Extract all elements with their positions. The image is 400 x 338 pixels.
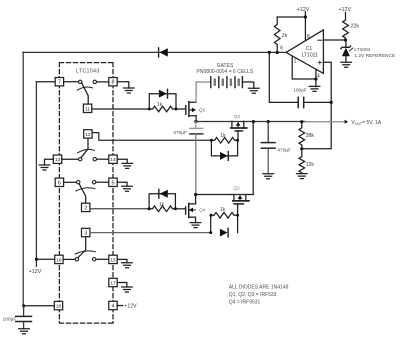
svg-text:PN0800-0004 = 6 CELLS: PN0800-0004 = 6 CELLS xyxy=(197,69,254,75)
pin 11 xyxy=(83,104,91,112)
svg-text:16: 16 xyxy=(56,304,62,310)
capacitor 100uF xyxy=(16,306,32,329)
svg-text:1: 1 xyxy=(294,59,297,65)
node 100uF xyxy=(22,304,25,307)
svg-text:14: 14 xyxy=(110,157,116,163)
note text xyxy=(229,284,289,305)
svg-text:470µF: 470µF xyxy=(277,147,291,153)
battery GATES 6 cells xyxy=(196,63,254,88)
wire Q1 drain to battery xyxy=(195,82,197,102)
wire Q4 drain xyxy=(195,195,197,204)
node 1k q4 right xyxy=(174,207,177,210)
svg-text:LTC1043: LTC1043 xyxy=(76,69,100,75)
node 1k q4 left xyxy=(148,207,151,210)
node Q4 drain / Q2 source xyxy=(194,193,197,196)
svg-text:12: 12 xyxy=(85,132,91,138)
svg-text:LT1011: LT1011 xyxy=(302,52,318,58)
ground 12k xyxy=(297,174,308,179)
svg-text:470µF: 470µF xyxy=(173,130,187,136)
ground Q4 xyxy=(190,223,201,228)
node pin1/pin4 xyxy=(314,77,317,80)
pin 8 xyxy=(109,78,117,86)
svg-text:2: 2 xyxy=(84,205,87,211)
wire pin16 to frame xyxy=(24,305,55,307)
svg-text:5: 5 xyxy=(112,180,115,186)
capacitor 470uF (output) xyxy=(261,122,275,174)
wire pin12 to Q3 gate network xyxy=(92,133,211,141)
wire to Q2 xyxy=(196,194,231,196)
resistor 1k (Q1 gate) xyxy=(149,106,176,112)
svg-text:Q1: Q1 xyxy=(199,108,206,114)
wire pin13 to ground xyxy=(45,159,54,165)
switch S4 (pins 18-15) xyxy=(63,237,109,261)
ground 470uF output xyxy=(263,174,274,179)
svg-text:= 5V, 1A: = 5V, 1A xyxy=(362,120,382,126)
svg-text:22k: 22k xyxy=(351,23,360,29)
wire pin5 to ground xyxy=(117,182,127,186)
diode D4 (parallel 1k, pointing left) xyxy=(149,189,175,208)
wire pin2 to Q4 gate network xyxy=(90,208,149,210)
wire pin4 to +12V xyxy=(117,305,123,307)
wire top rail xyxy=(23,51,286,53)
resistor 1k (Q3 gate) xyxy=(211,138,237,144)
diode D-top (pointing left) xyxy=(159,48,168,57)
wire pin11 to R1k xyxy=(92,108,150,110)
node 1k left xyxy=(148,108,151,111)
resistor 12k xyxy=(299,149,305,174)
ground pin5 xyxy=(122,186,133,191)
resistor 22k xyxy=(343,13,349,41)
svg-text:11: 11 xyxy=(85,106,90,112)
svg-text:1k: 1k xyxy=(159,202,165,208)
wire pin17 to ground xyxy=(117,283,127,288)
svg-text:OUT: OUT xyxy=(355,122,362,126)
switch S2 (pins 13-14) xyxy=(62,138,109,161)
node Q1 source xyxy=(194,120,197,123)
wire pin14 to ground xyxy=(117,159,127,163)
svg-text:12k: 12k xyxy=(306,162,315,168)
ground battery xyxy=(249,88,260,93)
ground LT1004 xyxy=(341,62,352,67)
transistor Q2 xyxy=(231,195,249,216)
wire pin15 to ground xyxy=(117,259,127,262)
wire Q2 drain up to Vout rail xyxy=(249,122,253,195)
switch S3 (pins 6-5) xyxy=(64,181,109,204)
svg-text:+12V: +12V xyxy=(124,304,137,310)
capacitor 100pF xyxy=(269,52,331,107)
wire to Q4 gate xyxy=(175,208,185,210)
resistor 1k (Q2 gate) xyxy=(211,212,238,218)
svg-text:Q4 = IRF9531: Q4 = IRF9531 xyxy=(229,299,261,305)
diode D2 (on pin3 wire, pointing right) xyxy=(220,228,228,237)
wire +12V rail left xyxy=(35,82,37,267)
svg-text:38k: 38k xyxy=(306,133,315,139)
zener LT1004 1.2V reference xyxy=(341,40,353,62)
node 1k right xyxy=(175,108,178,111)
node reference xyxy=(344,38,347,41)
svg-text:8: 8 xyxy=(112,80,115,86)
wire pin3 to Q2 gate network xyxy=(90,232,211,234)
pin 14 xyxy=(109,155,117,163)
wire pin8 to ground xyxy=(117,82,129,88)
node 38k top xyxy=(300,120,303,123)
svg-text:Q4: Q4 xyxy=(199,208,206,214)
svg-text:3: 3 xyxy=(84,231,87,237)
node 1k q2 right xyxy=(236,214,239,217)
svg-text:1.2V REFERENCE: 1.2V REFERENCE xyxy=(354,53,395,59)
switch S1 (pins 7-8) xyxy=(64,80,109,104)
svg-text:C1: C1 xyxy=(306,46,313,52)
ground pin17 xyxy=(122,287,133,292)
svg-text:+12V: +12V xyxy=(297,7,310,13)
ground pin14 xyxy=(122,163,133,168)
resistor 2k xyxy=(274,17,280,52)
pin 7 xyxy=(55,78,63,86)
op-amp C1 LT1011 (comparator, pointing left) xyxy=(280,30,323,80)
pin 13 xyxy=(53,155,61,163)
pin 2 xyxy=(82,203,90,211)
ground 100uF xyxy=(19,329,30,334)
svg-text:+12V: +12V xyxy=(29,269,42,275)
wire C1 pin1 + pin4 to ground xyxy=(292,57,316,87)
wire pin7 left xyxy=(36,81,55,83)
node 1k q2 left xyxy=(210,214,213,217)
wire C1 +input to divider xyxy=(302,62,331,149)
svg-text:13: 13 xyxy=(55,157,61,163)
node divider xyxy=(300,147,303,150)
diode D3 (below 1k, pointing right) xyxy=(211,141,237,161)
svg-text:7: 7 xyxy=(58,80,61,86)
wire Vout rail xyxy=(196,121,305,123)
ground C1 xyxy=(309,86,320,91)
pin 5 xyxy=(109,178,117,186)
node 100pF right xyxy=(330,101,333,104)
node 470uF out xyxy=(267,120,270,123)
node D3 left xyxy=(210,139,213,142)
node Q2 drain xyxy=(252,120,255,123)
svg-text:8: 8 xyxy=(307,34,310,40)
svg-text:LT1004: LT1004 xyxy=(354,47,370,53)
ground pin15 xyxy=(122,263,133,268)
node +12V rail / pin18 xyxy=(35,258,38,261)
pin 15 xyxy=(109,255,117,263)
pin 16 xyxy=(54,301,62,309)
wire ladder verticals q2 xyxy=(211,215,238,232)
svg-text:17: 17 xyxy=(110,281,116,287)
wire C1 -input to reference xyxy=(323,39,345,41)
diode D1 (parallel 1k, pointing right) xyxy=(149,89,176,109)
svg-text:100pF: 100pF xyxy=(293,88,307,94)
svg-text:Q1, Q2, Q3 = IRF533: Q1, Q2, Q3 = IRF533 xyxy=(229,292,277,298)
resistor 1k (Q4 gate) xyxy=(149,206,175,212)
pin 18 xyxy=(55,255,63,263)
svg-text:Q2: Q2 xyxy=(233,186,240,192)
pin 6 xyxy=(55,178,63,186)
svg-text:100µF: 100µF xyxy=(3,317,17,323)
transistor Q3 (high side switch) xyxy=(231,121,247,140)
capacitor 470uF (flying) xyxy=(190,122,203,195)
svg-text:1k: 1k xyxy=(220,133,226,139)
node 2k bottom xyxy=(276,51,279,54)
wire pin18 left to +12V rail xyxy=(36,258,54,260)
Vout label xyxy=(351,120,381,126)
pin 17 xyxy=(109,278,117,286)
Vout arrow xyxy=(345,120,349,124)
svg-text:2k: 2k xyxy=(282,33,288,39)
svg-text:1k: 1k xyxy=(157,102,163,108)
svg-text:18: 18 xyxy=(56,257,62,263)
transistor Q1 xyxy=(186,102,196,117)
ground pin8 xyxy=(124,88,135,93)
wire Q4 source to ground xyxy=(195,217,197,223)
svg-text:ALL DIODES ARE 1N4148: ALL DIODES ARE 1N4148 xyxy=(229,284,289,290)
node +12V xyxy=(304,15,307,18)
LTC1043 dashed box xyxy=(59,63,113,324)
resistor 38k xyxy=(299,122,305,149)
wire Q1 source to Vout rail xyxy=(195,116,197,122)
svg-text:Q3: Q3 xyxy=(234,114,241,120)
pin 3 xyxy=(82,228,90,236)
pin 12 xyxy=(84,130,92,138)
node D3 right xyxy=(236,139,239,142)
node comparator output / top rail xyxy=(268,51,271,54)
transistor Q4 xyxy=(186,203,196,217)
svg-text:4: 4 xyxy=(112,304,115,310)
ground pin13 xyxy=(39,165,50,170)
wire to Q1 gate xyxy=(176,108,186,110)
node pin3 wire xyxy=(209,231,212,234)
svg-text:6: 6 xyxy=(58,180,61,186)
svg-text:1k: 1k xyxy=(220,207,226,213)
wire +12V to 2k and pin8 xyxy=(277,12,305,41)
wire left frame vertical xyxy=(22,52,24,305)
svg-text:15: 15 xyxy=(110,257,116,263)
svg-text:6: 6 xyxy=(280,46,283,52)
pin 4 (LTC1043) xyxy=(109,301,117,309)
